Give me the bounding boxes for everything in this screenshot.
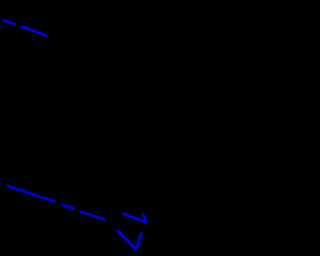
shaft start dot (0, 181, 1, 183)
shaft dash 3 (81, 211, 105, 219)
shaft dash 1 (long) (8, 186, 55, 202)
shaft dash 2 (62, 205, 73, 208)
check-mark V stroke (118, 231, 141, 250)
top dashed stroke, dash 1 (4, 20, 15, 24)
top dashed stroke, dash 2 (22, 27, 46, 36)
arrowhead chevron (124, 214, 147, 222)
